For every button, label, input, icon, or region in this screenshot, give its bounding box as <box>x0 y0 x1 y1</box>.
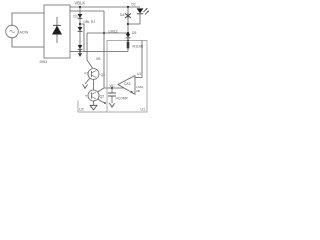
svg-text:LM1Z: LM1Z <box>109 30 119 34</box>
ground arrow <box>83 84 88 88</box>
diode D3 <box>78 45 83 49</box>
svg-text:U2: U2 <box>79 108 84 112</box>
labels <box>20 1 146 112</box>
svg-text:VB: VB <box>96 57 101 61</box>
node <box>79 50 81 52</box>
svg-text:U1: U1 <box>141 108 146 112</box>
diode chain D1 <box>79 7 81 52</box>
LED D2 <box>137 8 144 13</box>
svg-text:D1: D1 <box>74 15 78 19</box>
node <box>127 6 129 8</box>
wire <box>12 13 44 25</box>
svg-text:K1: K1 <box>85 72 89 76</box>
node VBLK <box>79 6 81 8</box>
svg-text:DBL RJ: DBL RJ <box>84 20 96 24</box>
wire V- rail <box>70 51 128 53</box>
node <box>104 102 106 104</box>
AC source V1 <box>6 25 19 38</box>
wire VBLK top rail <box>70 6 140 8</box>
ground <box>90 105 97 110</box>
diode inside DB1 <box>56 17 58 26</box>
svg-text:DB1: DB1 <box>40 59 49 64</box>
wire <box>98 99 105 103</box>
svg-text:U1: U1 <box>137 72 141 76</box>
wire <box>87 33 93 68</box>
svg-text:D5: D5 <box>132 31 136 35</box>
svg-text:R110K: R110K <box>133 45 144 49</box>
ground <box>78 53 82 57</box>
svg-text:ACIN: ACIN <box>20 31 29 35</box>
wire emitter Q2 <box>93 101 95 105</box>
transistor Q2 <box>88 90 99 101</box>
capacitor C1 <box>111 88 113 93</box>
module box U1 <box>107 41 147 113</box>
svg-text:CA3: CA3 <box>124 82 131 86</box>
wire <box>80 24 84 52</box>
svg-text:HCOMP: HCOMP <box>116 97 129 101</box>
svg-text:T1: T1 <box>85 95 89 99</box>
ground <box>109 103 114 107</box>
wire <box>93 80 95 91</box>
wire base drive <box>87 32 128 34</box>
svg-text:Q1: Q1 <box>101 73 106 77</box>
node VC <box>111 87 113 89</box>
node <box>103 32 105 34</box>
diac D4 <box>127 7 129 13</box>
op-amp U1 comparator <box>118 76 135 95</box>
wire <box>70 10 104 12</box>
node <box>127 23 129 25</box>
resistor R1 <box>127 42 130 49</box>
input arrow mark <box>130 91 133 94</box>
svg-text:D4: D4 <box>120 13 124 17</box>
LED arrows <box>144 9 148 13</box>
wire VC <box>104 87 124 89</box>
bridge rectifier DB1 <box>44 5 70 58</box>
node <box>127 32 129 34</box>
svg-text:0B: 0B <box>136 89 140 93</box>
wire <box>135 41 142 78</box>
svg-text:VC: VC <box>110 84 116 88</box>
module box U2 <box>78 101 107 113</box>
node <box>79 23 81 25</box>
wire emitter Q1 <box>85 78 90 84</box>
svg-text:Q2: Q2 <box>100 95 105 99</box>
transistor Q1 <box>88 69 99 80</box>
wire <box>103 11 105 88</box>
wire collector Q2 <box>98 88 105 92</box>
zener D5 <box>126 34 131 38</box>
wire <box>12 38 44 47</box>
node <box>127 39 129 41</box>
svg-text:VBLK: VBLK <box>75 1 86 6</box>
diode D2 <box>78 27 83 31</box>
svg-text:D2: D2 <box>132 3 136 7</box>
wire <box>128 14 140 24</box>
